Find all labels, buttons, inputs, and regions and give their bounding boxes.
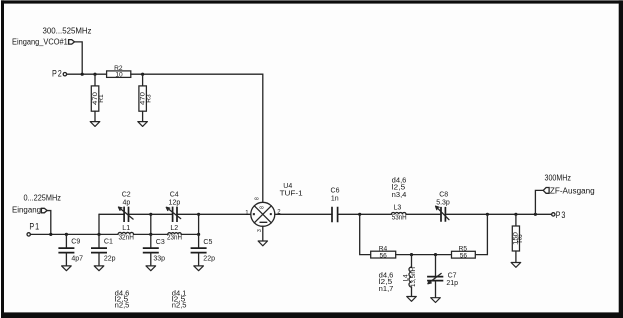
svg-text:n1,7: n1,7 (379, 286, 394, 293)
svg-text:C6: C6 (331, 187, 340, 194)
port P3 (552, 210, 567, 221)
svg-text:Eingang_VCO#1: Eingang_VCO#1 (12, 37, 68, 46)
svg-text:U4: U4 (283, 183, 292, 190)
inductor L4 value 13,5nH (402, 255, 417, 297)
ground below C1 (94, 266, 104, 271)
ground below L4 (407, 297, 417, 302)
svg-text:TUF-1: TUF-1 (280, 191, 303, 198)
svg-text:21p: 21p (446, 280, 458, 287)
svg-text:C8: C8 (439, 191, 448, 198)
svg-text:n2,5: n2,5 (115, 303, 130, 310)
svg-text:l2,5: l2,5 (392, 185, 406, 192)
svg-text:R3: R3 (146, 94, 153, 103)
svg-text:n2,5: n2,5 (172, 303, 187, 310)
wire P1 to L1 (30, 233, 118, 235)
svg-text:C9: C9 (71, 238, 80, 245)
junction node1 (97, 233, 100, 236)
junction IF node left (358, 213, 361, 216)
resistor R5 value 56 (452, 245, 476, 259)
coil data d4,6 l2,5 n1,7 (379, 272, 394, 293)
resistor R1 value 470 (91, 74, 105, 121)
vertical node2 riser (150, 214, 152, 234)
svg-text:d4,6: d4,6 (392, 177, 407, 184)
svg-text:L1: L1 (122, 225, 130, 232)
junction at VCO drop (81, 73, 84, 76)
svg-text:4p: 4p (123, 199, 131, 206)
junction node2 bottom (149, 233, 152, 236)
trimmer capacitor C4 value 12p (166, 192, 180, 223)
inductor L2 value 23nH (167, 225, 182, 241)
ground below C9 (62, 266, 72, 271)
svg-text:13,5nH: 13,5nH (410, 267, 417, 287)
svg-text:C2: C2 (122, 192, 131, 199)
svg-text:C4: C4 (170, 192, 179, 199)
trimmer capacitor C8 value 5.3p (436, 191, 450, 221)
net flag Eingang (12, 206, 47, 215)
svg-text:56: 56 (380, 253, 388, 260)
svg-text:56: 56 (460, 253, 468, 260)
resistor R2 value 10 (107, 65, 131, 79)
svg-text:4p7: 4p7 (71, 255, 83, 262)
ground below mixer (258, 241, 267, 246)
svg-text:5.3p: 5.3p (436, 200, 450, 207)
net label 300MHz (545, 174, 572, 183)
svg-text:P1: P1 (29, 222, 40, 233)
ground below C3 (146, 266, 156, 271)
trimmer capacitor C2 value 4p (119, 192, 134, 223)
left riser to R4 branch (360, 214, 371, 254)
junction node3 top (197, 213, 200, 216)
top branch wire segments (99, 213, 251, 215)
wire Eingang flag down (47, 211, 51, 235)
svg-text:C3: C3 (156, 239, 165, 246)
svg-text:R4: R4 (379, 245, 388, 252)
svg-text:R1: R1 (98, 94, 105, 103)
svg-text:L2: L2 (170, 225, 178, 232)
coil data d4,1 l2,5 n2,5 (172, 290, 187, 309)
capacitor C1 value 22p (91, 234, 116, 266)
svg-text:300...525MHz: 300...525MHz (43, 26, 92, 35)
port P1 (27, 222, 40, 236)
net label 300...525MHz (43, 26, 92, 35)
trimmer capacitor C7 value 21p (427, 255, 458, 298)
wire R2 to mixer top (131, 74, 263, 202)
wire VCO flag to P2 net (75, 42, 83, 74)
svg-text:23nH: 23nH (167, 235, 182, 242)
svg-text:P3: P3 (556, 210, 567, 221)
svg-text:R6: R6 (517, 234, 524, 243)
junction at R1 (93, 73, 96, 76)
capacitor C5 value 22p (191, 234, 215, 266)
junction node3 bottom (197, 233, 200, 236)
svg-text:33p: 33p (153, 255, 165, 262)
junction R6 (514, 213, 517, 216)
wire P2 to R2 (67, 73, 107, 75)
junction C7 (434, 253, 437, 256)
net flag Eingang_VCO#1 (12, 37, 75, 46)
mixer U4 TUF-1 (245, 183, 303, 232)
junction Eingang drop (49, 233, 52, 236)
vertical node1 riser (98, 214, 100, 234)
junction at R3 (141, 73, 144, 76)
capacitor C3 value 33p (143, 234, 165, 266)
svg-text:L4: L4 (402, 274, 409, 282)
ground below C7 (431, 298, 441, 303)
junction node2 top (149, 213, 152, 216)
svg-text:C5: C5 (203, 239, 212, 246)
wire L2 to node3 (181, 233, 198, 235)
resistor R4 value 56 (371, 245, 396, 259)
svg-text:L3: L3 (394, 204, 402, 211)
wire L1 to L2 (134, 233, 168, 235)
svg-text:300MHz: 300MHz (545, 174, 572, 183)
svg-text:P2: P2 (52, 68, 63, 79)
svg-text:Eingang: Eingang (12, 206, 41, 215)
svg-text:53nH: 53nH (392, 215, 407, 222)
svg-text:3: 3 (257, 229, 263, 232)
wire C8 to P3 (445, 213, 551, 215)
inductor L1 value 32nH (118, 225, 134, 241)
svg-text:C1: C1 (104, 238, 113, 245)
svg-text:8: 8 (260, 206, 266, 209)
capacitor C9 value 4p7 (58, 234, 83, 266)
resistor R3 value 470 (139, 74, 153, 121)
svg-text:ZF-Ausgang: ZF-Ausgang (550, 186, 595, 195)
mixer bottom pin wire (262, 226, 264, 241)
svg-text:1n: 1n (331, 195, 339, 202)
coil data d4,6 l2,5 n3,4 (392, 177, 407, 199)
svg-text:10: 10 (115, 72, 123, 79)
junction L4 (410, 253, 413, 256)
net label 0...225MHz (24, 193, 61, 202)
svg-text:32nH: 32nH (118, 235, 134, 242)
ground below R3 (138, 122, 148, 127)
junction C9 (65, 233, 68, 236)
net flag ZF-Ausgang (535, 186, 594, 214)
svg-text:n3,4: n3,4 (392, 192, 407, 199)
svg-text:22p: 22p (203, 255, 215, 262)
ground below R1 (90, 122, 100, 127)
svg-text:8: 8 (255, 197, 261, 200)
svg-text:22p: 22p (104, 255, 116, 262)
ground below C5 (194, 266, 204, 271)
inductor L3 value 53nH (391, 204, 406, 221)
junction IF node right (486, 213, 489, 216)
wire R4 to R5 (396, 254, 452, 256)
wire mixer to C6 (275, 213, 332, 215)
coil data d4,6 l2,5 n2,5 (115, 290, 130, 309)
svg-text:12p: 12p (169, 199, 181, 206)
svg-text:0...225MHz: 0...225MHz (24, 193, 61, 202)
svg-text:R5: R5 (459, 245, 468, 252)
right riser from R5 branch (475, 214, 487, 254)
wire L3 to C8 (406, 213, 441, 215)
port P2 (52, 68, 67, 79)
capacitor C6 value 1n (331, 187, 340, 222)
svg-text:C7: C7 (448, 272, 457, 279)
svg-text:1: 1 (245, 210, 249, 216)
vertical node3 riser (198, 214, 200, 234)
wire C6 to L3 (338, 213, 392, 215)
ground below R6 (511, 263, 521, 268)
resistor R6 value 150 (512, 214, 524, 262)
junction ZF drop (534, 213, 537, 216)
